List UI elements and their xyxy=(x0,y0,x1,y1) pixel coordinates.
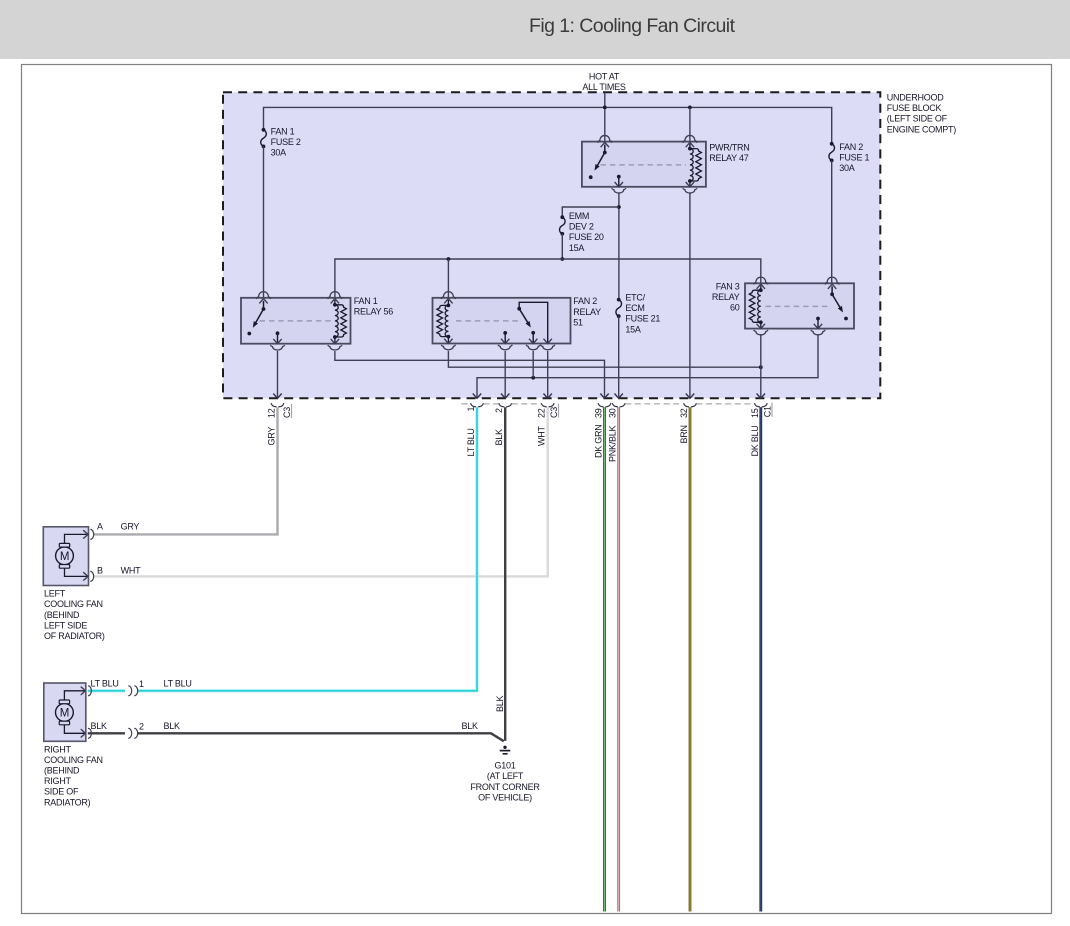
svg-text:LEFT: LEFT xyxy=(44,589,66,599)
svg-text:FAN 3: FAN 3 xyxy=(716,281,740,291)
wire BLK stub xyxy=(88,732,125,734)
svg-text:22: 22 xyxy=(537,408,547,418)
svg-text:FUSE BLOCK: FUSE BLOCK xyxy=(887,103,942,113)
svg-text:EMM: EMM xyxy=(569,211,589,221)
wire label DK GRN xyxy=(594,424,604,458)
wire label WHT horizontal xyxy=(121,566,141,576)
left fan terminal A arc xyxy=(90,529,93,539)
svg-text:RIGHT: RIGHT xyxy=(44,745,72,755)
svg-text:30A: 30A xyxy=(839,163,855,173)
svg-text:30: 30 xyxy=(608,408,618,418)
inline connector wire 2 xyxy=(128,728,137,738)
junction dot L2 FAN3 coil xyxy=(759,365,763,369)
label FAN 3 RELAY 60 xyxy=(712,281,740,312)
pin 32 label xyxy=(679,408,689,418)
wire FAN2 coil feed xyxy=(447,259,449,298)
wire L3 FAN3-output to pin1 xyxy=(477,334,818,398)
pin 30 label xyxy=(608,408,618,418)
fuse EMM DEV 2 FUSE 20 15A xyxy=(560,215,566,259)
svg-text:UNDERHOOD: UNDERHOOD xyxy=(887,92,945,102)
relay K1 FAN 1 RELAY 56 box xyxy=(241,298,351,344)
wire label DK BLU xyxy=(750,425,760,456)
wire top bus xyxy=(264,107,832,143)
svg-text:Fig 1: Cooling Fan Circuit: Fig 1: Cooling Fan Circuit xyxy=(529,15,736,37)
wire PWR/TRN coil to pin32 xyxy=(689,192,691,398)
svg-text:RELAY: RELAY xyxy=(712,292,740,302)
pin 22 connector C3 label xyxy=(549,407,559,418)
right fan terminal 2 arc xyxy=(88,728,91,738)
wire label BLK at ground xyxy=(462,721,479,731)
label FAN 1 FUSE 2 30A xyxy=(271,126,301,157)
svg-text:DK GRN: DK GRN xyxy=(594,424,604,458)
svg-text:ETC/: ETC/ xyxy=(625,292,645,302)
svg-text:COOLING FAN: COOLING FAN xyxy=(44,755,103,765)
pin 39 label xyxy=(594,408,604,418)
relay FAN3 centerline xyxy=(766,305,831,307)
inline connector wire 1 xyxy=(128,686,137,696)
relay FAN2 NO contact pin xyxy=(526,333,540,350)
label G101 xyxy=(470,761,540,803)
svg-text:GRY: GRY xyxy=(121,522,140,532)
pin 15 connector C1 label xyxy=(762,406,772,417)
svg-text:ECM: ECM xyxy=(625,303,644,313)
relay FAN1 centerline xyxy=(260,320,332,322)
label FAN 2 FUSE 1 30A xyxy=(839,142,869,173)
label RIGHT COOLING FAN xyxy=(44,745,103,808)
svg-text:C3: C3 xyxy=(282,407,292,418)
motor M2 right fan xyxy=(56,700,74,725)
left fan internal wire B xyxy=(65,568,89,580)
right fan internal wire 1 xyxy=(64,687,85,700)
svg-text:FUSE 21: FUSE 21 xyxy=(625,314,660,324)
label PWR/TRN RELAY 47 xyxy=(709,142,749,163)
left fan internal wire A xyxy=(65,530,89,543)
junction dot bus2 FAN2 coil xyxy=(447,257,451,261)
svg-text:SIDE OF: SIDE OF xyxy=(44,787,79,797)
svg-text:BLK: BLK xyxy=(91,721,108,731)
relay FAN2 NC contact pin 2 xyxy=(498,331,512,350)
wire PNK/BLK pin30 down xyxy=(617,407,620,911)
svg-text:FUSE 1: FUSE 1 xyxy=(839,153,869,163)
svg-text:M: M xyxy=(60,708,69,720)
wire DK BLU pin15 down xyxy=(759,407,762,911)
relay PWR/TRN switch output pin 30 xyxy=(612,175,626,193)
svg-text:LT BLU: LT BLU xyxy=(164,679,192,689)
terminal 2 label xyxy=(139,722,144,732)
fuse FAN 2 FUSE 1 30A xyxy=(829,142,835,283)
svg-text:15: 15 xyxy=(750,408,760,418)
svg-text:PNK/BLK: PNK/BLK xyxy=(608,425,618,462)
wire GRY pin12 to left fan A xyxy=(94,407,278,534)
svg-text:FUSE 2: FUSE 2 xyxy=(271,137,301,147)
svg-text:BLK: BLK xyxy=(494,429,504,446)
svg-text:51: 51 xyxy=(573,317,583,327)
relay FAN1 coil xyxy=(328,292,347,350)
svg-text:2: 2 xyxy=(139,722,144,732)
junction dot EMM-bus2 xyxy=(560,257,564,261)
wire label BLK left xyxy=(91,721,108,731)
label FAN 2 RELAY 51 xyxy=(573,296,601,327)
wire WHT pin22 to left fan B xyxy=(94,407,548,576)
wire L1 FAN1-coil to pin39 xyxy=(335,351,605,398)
wire LT BLU pin1 to right fan xyxy=(137,407,477,691)
pin arrows at fuse block border xyxy=(273,394,765,399)
right cooling fan box xyxy=(44,683,86,741)
underhood fuse block (dashed box) xyxy=(223,92,880,398)
wire FAN1 output to pin12 xyxy=(277,351,279,398)
svg-text:OF VEHICLE): OF VEHICLE) xyxy=(478,793,532,803)
relay PWR/TRN centerline xyxy=(601,164,687,166)
wire FAN2 contact drop xyxy=(532,351,534,378)
svg-text:(BEHIND: (BEHIND xyxy=(44,766,80,776)
ground G101 xyxy=(500,746,511,754)
svg-text:1: 1 xyxy=(139,679,144,689)
svg-text:15A: 15A xyxy=(625,324,641,334)
connector tick C3 pin12 xyxy=(291,404,293,418)
svg-text:LT BLU: LT BLU xyxy=(91,679,119,689)
wire switch output down xyxy=(618,192,620,299)
svg-text:FAN 2: FAN 2 xyxy=(573,296,597,306)
connector C1 dashed outline xyxy=(625,403,754,405)
relay FAN3 output pin xyxy=(811,317,825,335)
svg-text:WHT: WHT xyxy=(121,566,141,576)
junction dot L3 FAN2 contact xyxy=(531,376,535,380)
wire coil bus xyxy=(335,259,761,298)
svg-text:BRN: BRN xyxy=(679,425,689,443)
relay K2 FAN 2 RELAY 51 box xyxy=(433,298,571,344)
pin 12 label xyxy=(267,408,277,418)
svg-text:B: B xyxy=(97,566,103,576)
title: Fig 1: Cooling Fan Circuit xyxy=(529,15,736,37)
wire label PNK/BLK xyxy=(608,425,618,462)
svg-text:FAN 2: FAN 2 xyxy=(839,142,863,152)
fuse FAN 1 FUSE 2 30A xyxy=(261,128,267,298)
svg-text:RELAY 47: RELAY 47 xyxy=(709,153,748,163)
relay U1 PWR/TRN RELAY 47 box xyxy=(582,142,706,187)
junction dot bus-coil xyxy=(688,106,692,110)
left fan terminal B arc xyxy=(90,571,93,581)
wire L2 FAN2-coil to pin15 xyxy=(448,351,760,367)
pin 2 label xyxy=(494,408,504,413)
wire LT BLU stub xyxy=(88,689,125,692)
junction dot bus-switch xyxy=(603,106,607,110)
svg-text:FAN 1: FAN 1 xyxy=(354,296,378,306)
svg-text:OF RADIATOR): OF RADIATOR) xyxy=(44,631,105,641)
relay FAN3 coil xyxy=(749,277,768,335)
junction dot EMM branch xyxy=(617,205,621,209)
wire label BLK ground drop xyxy=(495,695,505,712)
svg-text:(LEFT SIDE OF: (LEFT SIDE OF xyxy=(887,114,948,124)
svg-text:RIGHT: RIGHT xyxy=(44,776,72,786)
relay FAN2 coil xyxy=(437,292,456,350)
label ETC/ECM FUSE 21 15A xyxy=(625,292,660,334)
right fan terminal 1 arc xyxy=(88,686,91,696)
wire label BLK pin2 xyxy=(494,429,504,446)
svg-text:PWR/TRN: PWR/TRN xyxy=(709,142,749,152)
relay PWR/TRN switch xyxy=(589,135,612,179)
connector tick C3 pin22 xyxy=(558,404,560,418)
fuse ETC/ECM FUSE 21 15A xyxy=(616,298,622,399)
wire label LT BLU xyxy=(466,428,476,456)
wire BLK pin2 to ground xyxy=(504,407,506,741)
svg-text:FUSE 20: FUSE 20 xyxy=(569,232,604,242)
wire battery feed xyxy=(604,92,606,141)
header bar xyxy=(0,0,1070,59)
svg-text:32: 32 xyxy=(679,408,689,418)
label LEFT COOLING FAN xyxy=(44,589,105,642)
svg-text:LT BLU: LT BLU xyxy=(466,428,476,456)
svg-text:BLK: BLK xyxy=(164,721,181,731)
svg-text:C1: C1 xyxy=(762,406,772,417)
pin 15 label xyxy=(750,408,760,418)
wire label BRN xyxy=(679,425,689,443)
wire label LT BLU right xyxy=(164,679,192,689)
terminal 1 label xyxy=(139,679,144,689)
wire FAN2 NC to pin2 xyxy=(504,351,506,398)
terminal B label xyxy=(97,566,103,576)
svg-text:GRY: GRY xyxy=(267,427,277,446)
relay FAN3 switch xyxy=(825,277,848,320)
svg-text:DK BLU: DK BLU xyxy=(750,425,760,456)
motor M1 left fan xyxy=(56,543,74,568)
wire label GRY xyxy=(267,427,277,446)
relay PWR/TRN coil xyxy=(683,135,702,193)
relay K3 FAN 3 RELAY 60 box xyxy=(745,283,854,328)
svg-text:BLK: BLK xyxy=(495,695,505,712)
relay FAN1 output pin 12 xyxy=(270,331,284,350)
connector C3 dashed outline xyxy=(462,403,542,405)
wire label WHT xyxy=(537,426,547,446)
svg-text:C3: C3 xyxy=(549,407,559,418)
svg-text:1: 1 xyxy=(466,407,476,412)
label UNDERHOOD FUSE BLOCK xyxy=(887,92,957,134)
svg-text:(AT LEFT: (AT LEFT xyxy=(487,771,524,781)
svg-text:FAN 1: FAN 1 xyxy=(271,126,295,136)
pin 12 connector C3 label xyxy=(282,407,292,418)
terminal A label xyxy=(97,522,103,532)
wire DK GRN pin39 down xyxy=(603,407,606,911)
wire label BLK right xyxy=(164,721,181,731)
wire label LT BLU left xyxy=(91,679,119,689)
svg-text:ALL TIMES: ALL TIMES xyxy=(582,82,626,92)
svg-text:RADIATOR): RADIATOR) xyxy=(44,797,91,807)
svg-text:M: M xyxy=(60,551,69,563)
node HOT AT ALL TIMES xyxy=(582,72,626,92)
wire EMM branch xyxy=(562,207,619,217)
svg-text:BLK: BLK xyxy=(462,721,479,731)
svg-text:ENGINE COMPT): ENGINE COMPT) xyxy=(887,124,957,134)
svg-text:LEFT SIDE: LEFT SIDE xyxy=(44,620,87,630)
svg-text:30A: 30A xyxy=(271,148,287,158)
label EMM DEV 2 FUSE 20 15A xyxy=(569,211,604,253)
pin connector cups xyxy=(271,403,767,407)
pin 1 label xyxy=(466,407,476,412)
wire FAN3 coil to pin15 xyxy=(760,334,762,398)
connector tick C1 pin15 xyxy=(771,403,773,417)
wire label GRY horizontal xyxy=(121,522,140,532)
wire BRN pin32 down xyxy=(689,407,692,911)
right fan internal wire 2 xyxy=(64,725,85,738)
svg-text:12: 12 xyxy=(267,408,277,418)
svg-text:FRONT CORNER: FRONT CORNER xyxy=(470,782,540,792)
svg-text:15A: 15A xyxy=(569,243,585,253)
svg-text:WHT: WHT xyxy=(537,426,547,446)
pin 22 label xyxy=(537,408,547,418)
relay FAN2 switch xyxy=(517,302,555,349)
svg-text:RELAY: RELAY xyxy=(573,307,601,317)
svg-text:HOT AT: HOT AT xyxy=(589,72,620,82)
svg-text:COOLING FAN: COOLING FAN xyxy=(44,599,103,609)
svg-text:DEV 2: DEV 2 xyxy=(569,222,594,232)
svg-text:G101: G101 xyxy=(494,761,515,771)
left cooling fan box xyxy=(43,527,88,586)
label FAN 1 RELAY 56 xyxy=(354,296,393,317)
wire FAN2 common to pin22 xyxy=(547,351,549,398)
svg-text:60: 60 xyxy=(730,303,740,313)
wire coil feed PWR/TRN xyxy=(689,107,691,141)
relay FAN1 switch xyxy=(247,292,270,336)
svg-text:RELAY 56: RELAY 56 xyxy=(354,307,393,317)
svg-text:2: 2 xyxy=(494,408,504,413)
svg-text:(BEHIND: (BEHIND xyxy=(44,610,80,620)
svg-text:39: 39 xyxy=(594,408,604,418)
svg-text:A: A xyxy=(97,522,103,532)
wire BLK right fan to ground xyxy=(137,733,504,741)
relay FAN2 centerline xyxy=(456,320,520,322)
